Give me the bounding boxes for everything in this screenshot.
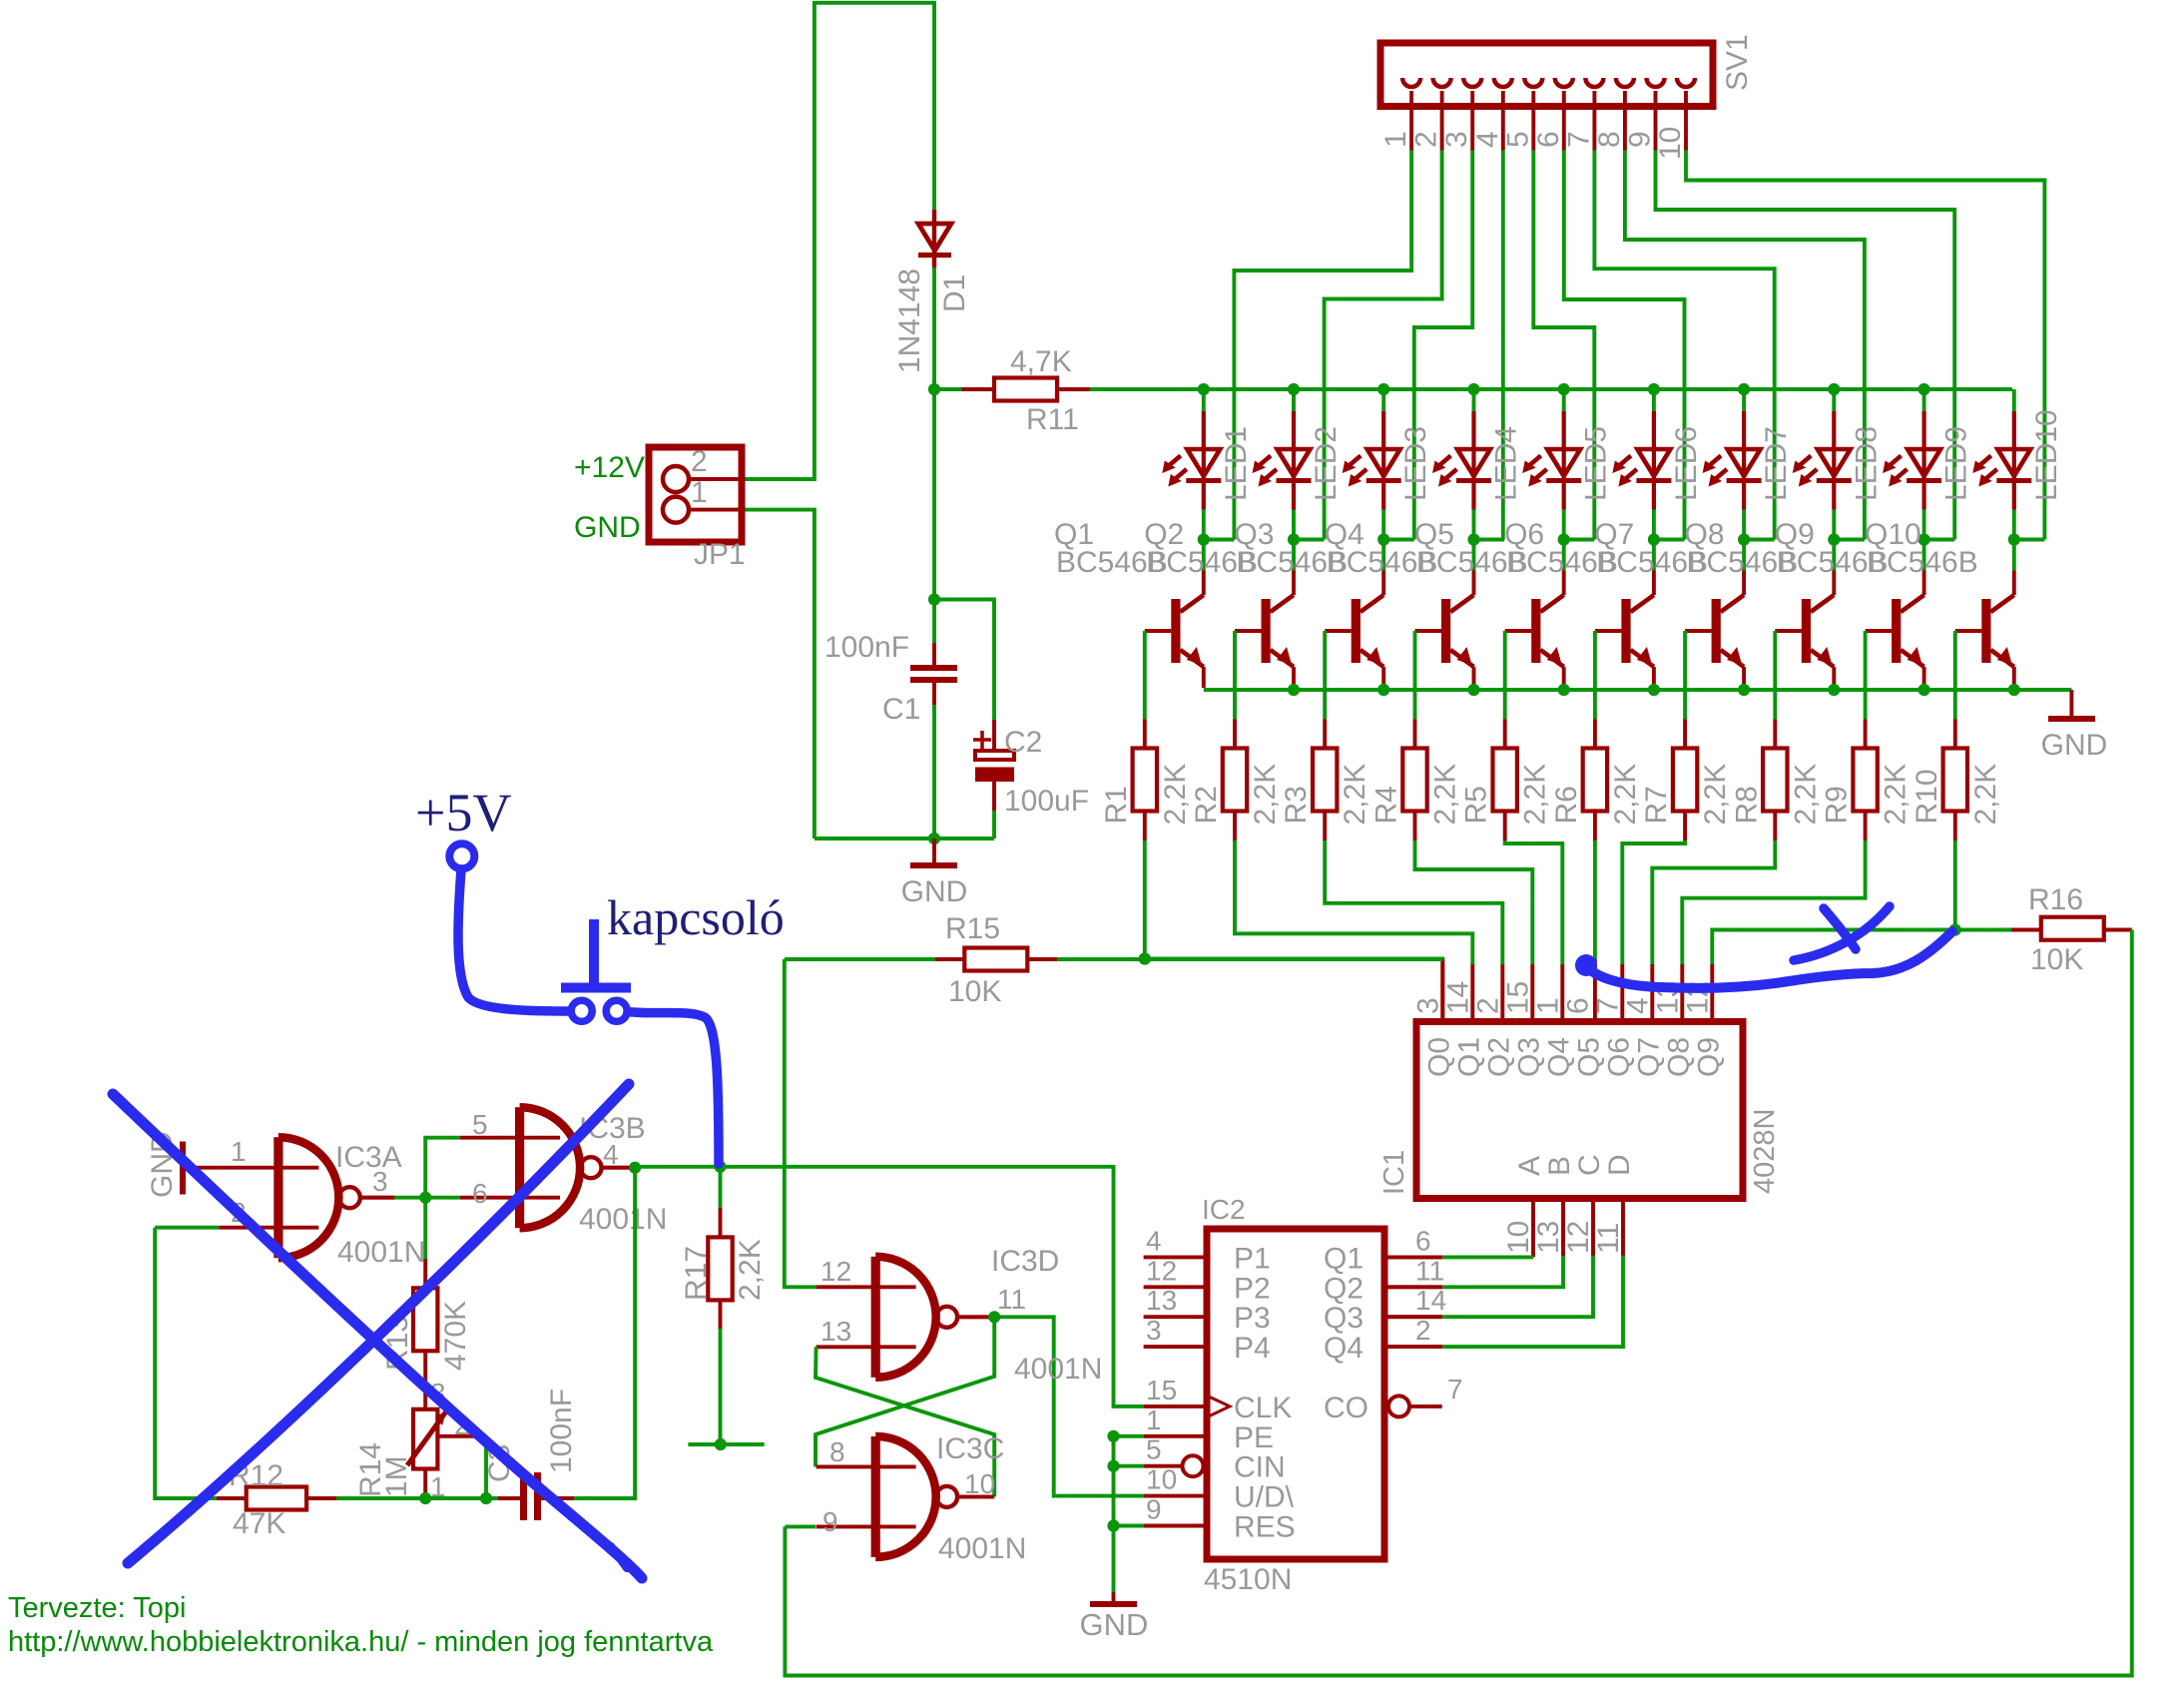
blue cross stroke 2 over oscillator [128, 1084, 629, 1563]
wire cathode LED8 [1832, 510, 1836, 540]
wire base Q5 [1505, 629, 1532, 633]
wire IC3C input 9 from feedback [785, 1524, 816, 1528]
connector JP1 [649, 447, 742, 542]
junction R14 wiper bottom [480, 1492, 492, 1504]
pin 7 of SV1 [1585, 78, 1603, 87]
wire IC3C output [957, 1494, 994, 1498]
svg-text:Q4: Q4 [1324, 1332, 1364, 1365]
resistor R1 2,2K [1143, 720, 1147, 749]
wire emitter rail [1204, 688, 2072, 692]
LED LED8 [1832, 389, 1836, 411]
resistor R10 2,2K [1953, 720, 1957, 749]
junction emitter Q8 [1828, 684, 1840, 696]
svg-text:kapcsoló: kapcsoló [607, 889, 785, 945]
svg-text:LED6: LED6 [1670, 426, 1703, 501]
svg-text:R9: R9 [1821, 786, 1854, 824]
IC2 pin 6 Q1 [1387, 1255, 1442, 1259]
svg-text:12: 12 [1146, 1255, 1177, 1286]
svg-text:IC3A: IC3A [335, 1141, 402, 1174]
wire base Q8 [1775, 629, 1802, 633]
transistor Q5 BC546B [1540, 595, 1563, 612]
switch lever [589, 919, 599, 984]
wire cathode LED10 [2012, 510, 2016, 540]
resistor R15 10K [785, 957, 935, 961]
svg-text:CLK: CLK [1234, 1392, 1292, 1424]
svg-text:2: 2 [1471, 997, 1504, 1014]
capacitor C3 100nF [498, 1496, 520, 1500]
wire R1 to IC1 pin [1145, 841, 1443, 964]
LED8 emission arrows [1798, 456, 1811, 467]
svg-text:Q9: Q9 [1692, 1037, 1725, 1077]
wire R8 to IC1 pin [1652, 841, 1775, 964]
junction anode LED4 [1467, 383, 1479, 395]
gate IC3D 4001N [871, 1257, 880, 1378]
transistor Q9 BC546B [1901, 595, 1923, 612]
svg-text:8: 8 [829, 1436, 845, 1467]
wire R12 to C3 [425, 1496, 498, 1500]
svg-text:PE: PE [1234, 1421, 1274, 1454]
transistor Q3 BC546B [1361, 595, 1383, 612]
junction emitter Q4 [1467, 684, 1479, 696]
IC IC2 4510N box [1207, 1229, 1384, 1559]
resistor R11 4,7K [934, 387, 961, 391]
svg-text:100uF: 100uF [1004, 785, 1089, 818]
wire collector Q3 [1381, 540, 1385, 571]
svg-text:Q3: Q3 [1512, 1037, 1545, 1077]
+5V terminal circle [449, 843, 474, 868]
LED LED2 [1292, 389, 1296, 411]
junction R1/R15 [1139, 952, 1151, 964]
wire base Q6 [1595, 629, 1622, 633]
wire base Q1 [1145, 629, 1172, 633]
svg-text:Q1: Q1 [1324, 1242, 1364, 1275]
pin 1 of SV1 [1402, 78, 1420, 87]
blue wire +5V to switch [458, 869, 569, 1011]
svg-text:11: 11 [1592, 1223, 1625, 1254]
svg-text:Q8: Q8 [1662, 1037, 1695, 1077]
wire base Q4 [1415, 629, 1442, 633]
wiper of R14 [439, 1434, 486, 1438]
wire R5 to IC1 pin [1505, 841, 1563, 964]
svg-text:Q2: Q2 [1324, 1272, 1364, 1305]
resistor R6 2,2K [1593, 720, 1597, 749]
IC1 bottom pin 10 [1531, 1202, 1535, 1256]
wire CIN to GND rail [1114, 1464, 1144, 1468]
svg-text:2: 2 [1410, 131, 1443, 148]
LED3 emission arrows [1348, 456, 1361, 467]
resistor R8 2,2K [1773, 720, 1777, 749]
wire IC1 D to IC2 [1442, 1256, 1623, 1347]
wire R3 to IC1 pin [1325, 841, 1502, 964]
ground flag on IC3A input 1 [185, 1166, 220, 1170]
junction C2 branch [928, 593, 940, 605]
wire R6 to IC1 pin [1593, 841, 1597, 959]
svg-text:LED1: LED1 [1220, 426, 1253, 501]
LED LED6 [1652, 389, 1656, 411]
svg-text:LED7: LED7 [1760, 426, 1793, 501]
wire stub at R17 bottom [688, 1442, 764, 1446]
svg-text:1: 1 [1146, 1404, 1162, 1435]
svg-text:http://www.hobbielektronika.hu: http://www.hobbielektronika.hu/ - minden… [8, 1626, 714, 1658]
svg-text:6: 6 [1415, 1225, 1431, 1256]
svg-text:14: 14 [1441, 981, 1474, 1014]
wire collector Q5 [1562, 540, 1566, 571]
svg-text:R5: R5 [1460, 786, 1493, 824]
svg-text:2,2K: 2,2K [1339, 764, 1371, 826]
svg-text:6: 6 [472, 1178, 488, 1209]
ground symbol under C1 [932, 839, 936, 862]
svg-text:1M: 1M [380, 1455, 413, 1497]
IC1 bottom pin 13 [1561, 1202, 1565, 1256]
switch kapcsolo contacts [571, 1000, 592, 1021]
resistor R17 2,2K [714, 1161, 726, 1173]
svg-text:Q7: Q7 [1632, 1037, 1665, 1077]
wire R7 to IC1 pin [1622, 841, 1685, 964]
wire IC3D output to IC3C input 8 [816, 1317, 994, 1466]
junction anode LED7 [1738, 383, 1750, 395]
svg-text:P1: P1 [1234, 1242, 1271, 1275]
pin 10 of SV1 [1677, 78, 1695, 87]
IC IC1 4028N box [1416, 1022, 1743, 1199]
svg-text:IC3D: IC3D [991, 1245, 1059, 1278]
junction emitter Q10 [2008, 684, 2020, 696]
IC2 pin 9 RES [1144, 1524, 1207, 1528]
svg-text:IC1: IC1 [1378, 1150, 1410, 1195]
svg-text:4: 4 [1146, 1225, 1162, 1256]
LED LED10 [2012, 389, 2016, 411]
svg-text:4510N: 4510N [1204, 1563, 1292, 1596]
wire cathode LED3 [1381, 510, 1385, 540]
wire R9 to IC1 pin [1682, 841, 1865, 964]
svg-text:CO: CO [1324, 1392, 1368, 1424]
wire emitter Q3 [1381, 667, 1385, 688]
svg-text:IC3C: IC3C [936, 1432, 1004, 1465]
svg-text:1N4148: 1N4148 [893, 269, 926, 373]
svg-text:R11: R11 [1026, 403, 1079, 436]
svg-text:2,2K: 2,2K [1789, 764, 1822, 826]
svg-text:GND: GND [901, 875, 968, 908]
junction anode LED9 [1918, 383, 1930, 395]
LED LED7 [1742, 389, 1746, 411]
LED7 emission arrows [1708, 456, 1721, 467]
gate IC3C 4001N [871, 1436, 880, 1557]
svg-text:R15: R15 [945, 912, 1000, 945]
svg-text:C: C [1573, 1154, 1606, 1176]
capacitor C1 100nF [932, 389, 936, 643]
svg-text:1: 1 [1379, 131, 1412, 148]
pin 2 of SV1 [1433, 78, 1451, 87]
wire SV1 pin 7 to LED7 cathode [1594, 151, 1774, 540]
svg-text:IC2: IC2 [1202, 1194, 1246, 1225]
svg-text:3: 3 [1411, 997, 1444, 1014]
wire RES to GND rail [1114, 1524, 1144, 1528]
wire cathode LED5 [1562, 510, 1566, 540]
wire SV1 pin 6 to LED6 cathode [1564, 151, 1685, 540]
IC2 pin 2 Q4 [1387, 1345, 1442, 1349]
wire R4 to IC1 pin [1415, 841, 1533, 964]
pin 6 of SV1 [1555, 78, 1573, 87]
junction emitter Q3 [1377, 684, 1389, 696]
junction emitter Q5 [1558, 684, 1570, 696]
IC2 pin 14 Q3 [1387, 1315, 1442, 1319]
svg-text:47K: 47K [233, 1507, 285, 1540]
wire collector Q1 [1202, 540, 1206, 571]
svg-text:R3: R3 [1280, 786, 1313, 824]
IC2 pin 3 P4 [1144, 1345, 1207, 1349]
svg-text:A: A [1513, 1156, 1546, 1176]
svg-text:100nF: 100nF [824, 631, 909, 664]
svg-text:R16: R16 [2028, 883, 2083, 916]
svg-text:C1: C1 [882, 693, 920, 726]
transistor Q6 BC546B [1631, 595, 1654, 612]
wire collector Q2 [1292, 540, 1296, 571]
svg-text:R10: R10 [1911, 769, 1943, 824]
svg-text:7: 7 [1562, 131, 1595, 148]
wire emitter Q7 [1742, 667, 1746, 688]
svg-text:+12V: +12V [574, 451, 645, 484]
svg-text:4001N: 4001N [579, 1203, 667, 1236]
wire R16 to bottom feedback [785, 930, 2131, 1676]
svg-text:15: 15 [1146, 1375, 1177, 1405]
resistor R5 2,2K [1503, 720, 1507, 749]
svg-text:Q4: Q4 [1542, 1037, 1575, 1077]
wire base Q2 [1235, 629, 1262, 633]
svg-text:12: 12 [1562, 1221, 1595, 1254]
wire IC3D input 13 to IC3C output [816, 1347, 994, 1496]
svg-text:9: 9 [1624, 131, 1657, 148]
wire GND bottom rail under C1/C2 [815, 837, 994, 841]
svg-text:10: 10 [1502, 1221, 1535, 1254]
wire SV1 pin 3 to LED3 cathode [1414, 151, 1472, 540]
wire cathode LED6 [1652, 510, 1656, 540]
capacitor C2 100uF electrolytic [934, 600, 994, 721]
junction anode LED2 [1288, 383, 1300, 395]
svg-text:470K: 470K [439, 1301, 472, 1371]
wire cathode LED4 [1472, 510, 1476, 540]
svg-text:14: 14 [1415, 1285, 1446, 1316]
svg-text:10: 10 [1146, 1464, 1177, 1495]
wire base Q10 [1955, 629, 1982, 633]
svg-text:13: 13 [1146, 1285, 1177, 1316]
svg-text:4,7K: 4,7K [1010, 345, 1072, 378]
svg-text:1: 1 [1531, 997, 1564, 1014]
wire collector Q8 [1832, 540, 1836, 571]
svg-text:P3: P3 [1234, 1302, 1271, 1335]
pin 5 of SV1 [1524, 78, 1542, 87]
ground symbol under IC2 [1112, 1592, 1116, 1602]
LED LED9 [1922, 389, 1926, 411]
wire R2 to IC1 pin [1235, 841, 1472, 964]
LED LED4 [1472, 389, 1476, 411]
svg-text:11: 11 [997, 1284, 1026, 1315]
resistor R9 2,2K [1864, 720, 1868, 749]
junction emitter Q2 [1288, 684, 1300, 696]
svg-text:LED3: LED3 [1399, 426, 1432, 501]
svg-text:RES: RES [1234, 1511, 1296, 1544]
wire SV1 pin 9 to LED9 cathode [1656, 151, 1955, 540]
svg-text:R1: R1 [1100, 786, 1133, 824]
svg-text:2: 2 [1415, 1315, 1431, 1346]
diode D1 1N4148 [932, 210, 936, 268]
blue curve wire to R16 node [1575, 954, 1597, 976]
junction R14 bottom [419, 1492, 431, 1504]
IC2 pin 12 P2 [1144, 1285, 1207, 1289]
wire SV1 pin 2 to LED2 cathode [1325, 151, 1442, 540]
IC1 bottom pin 12 [1591, 1202, 1595, 1256]
wire GND from JP1 pin1 down [742, 510, 815, 839]
wire GND vertical at IC2 [1112, 1436, 1116, 1592]
blue cross stroke 1 over oscillator [113, 1094, 642, 1578]
svg-text:LED8: LED8 [1850, 426, 1883, 501]
svg-text:R6: R6 [1550, 786, 1583, 824]
transistor Q7 BC546B [1721, 595, 1744, 612]
pin 9 of SV1 [1647, 78, 1665, 87]
ground symbol right of emitter rail [2069, 690, 2073, 716]
IC2 pin 7 CO [1388, 1396, 1409, 1416]
svg-text:R8: R8 [1730, 786, 1763, 824]
IC2 pin 5 CIN [1144, 1464, 1182, 1468]
svg-text:10K: 10K [948, 975, 1001, 1008]
svg-text:LED10: LED10 [2030, 409, 2063, 501]
wire PE to GND rail [1114, 1434, 1144, 1438]
wire R15 to IC1 pin 3 [1057, 957, 1442, 961]
svg-text:R4: R4 [1370, 786, 1403, 824]
svg-text:4001N: 4001N [337, 1236, 425, 1269]
IC2 pin 13 P3 [1144, 1315, 1207, 1319]
svg-text:2,2K: 2,2K [1699, 764, 1732, 826]
LED10 emission arrows [1978, 456, 1991, 467]
junction D1/R11 [928, 383, 940, 395]
svg-text:100nF: 100nF [545, 1389, 578, 1473]
wire emitter Q6 [1652, 667, 1656, 688]
svg-text:GND: GND [2041, 729, 2108, 762]
svg-text:Q2: Q2 [1482, 1037, 1515, 1077]
wire cathode LED2 [1292, 510, 1296, 540]
svg-text:P2: P2 [1234, 1272, 1271, 1305]
svg-text:LED5: LED5 [1580, 426, 1613, 501]
svg-text:+5V: +5V [415, 783, 511, 842]
wire emitter Q9 [1922, 667, 1926, 688]
junction emitter Q6 [1648, 684, 1660, 696]
svg-text:13: 13 [1532, 1221, 1565, 1254]
wire SV1 pin 1 to LED1 cathode [1234, 151, 1411, 540]
svg-text:D: D [1603, 1154, 1636, 1176]
svg-text:B: B [1543, 1156, 1576, 1176]
svg-text:Tervezte: Topi: Tervezte: Topi [8, 1592, 186, 1624]
svg-text:Q3: Q3 [1324, 1302, 1364, 1335]
svg-text:2,2K: 2,2K [1249, 764, 1282, 826]
svg-text:10: 10 [964, 1468, 995, 1499]
LED9 emission arrows [1889, 456, 1902, 467]
resistor R7 2,2K [1683, 720, 1687, 749]
wire IC3A output to IC3B inputs [360, 1196, 394, 1200]
svg-text:C2: C2 [1004, 726, 1042, 759]
junction anode LED8 [1828, 383, 1840, 395]
svg-text:4: 4 [1471, 131, 1504, 148]
LED6 emission arrows [1618, 456, 1631, 467]
wire IC3B output to C3 [574, 1167, 635, 1498]
IC2 pin 11 Q2 [1387, 1285, 1442, 1289]
LED2 emission arrows [1258, 456, 1271, 467]
LED5 emission arrows [1528, 456, 1541, 467]
svg-text:15: 15 [1501, 981, 1534, 1014]
wire cathode LED7 [1742, 510, 1746, 540]
transistor Q2 BC546B [1271, 595, 1294, 612]
resistor R16 10K [1955, 928, 2011, 932]
junction emitter Q7 [1738, 684, 1750, 696]
svg-text:2,2K: 2,2K [1609, 764, 1642, 826]
wire SV1 pin 8 to LED8 cathode [1625, 151, 1865, 540]
wire IC1 B to IC2 [1442, 1256, 1563, 1287]
resistor R13 470K [423, 1198, 427, 1259]
wire collector Q9 [1922, 540, 1926, 571]
transistor Q4 BC546B [1450, 595, 1473, 612]
svg-text:2,2K: 2,2K [1880, 764, 1912, 826]
svg-text:GND: GND [1080, 1607, 1149, 1642]
svg-text:Q0: Q0 [1422, 1037, 1455, 1077]
transistor Q1 BC546B [1180, 595, 1203, 612]
wire collector Q6 [1652, 540, 1656, 571]
svg-text:10: 10 [1654, 127, 1687, 160]
svg-text:6: 6 [1532, 131, 1565, 148]
svg-text:R2: R2 [1190, 786, 1223, 824]
wire emitter Q5 [1562, 667, 1566, 688]
trimmer R14 1M [423, 1351, 427, 1409]
wire R15 to IC3D input 12 [785, 959, 817, 1287]
svg-text:2,2K: 2,2K [734, 1239, 767, 1301]
resistor R4 2,2K [1413, 720, 1417, 749]
IC2 CLK triangle [1209, 1397, 1230, 1416]
svg-text:9: 9 [1146, 1494, 1162, 1525]
svg-text:5: 5 [1501, 131, 1534, 148]
svg-text:9: 9 [822, 1506, 838, 1537]
resistor R2 2,2K [1233, 720, 1237, 749]
svg-text:13: 13 [820, 1316, 851, 1347]
wire IC3D output junction [957, 1315, 994, 1319]
wire IC3B output node [602, 1166, 636, 1170]
wire cathode LED1 [1202, 510, 1206, 540]
wire IC3A input 2 feedback [155, 1226, 219, 1230]
svg-text:10K: 10K [2030, 943, 2083, 976]
LED LED1 [1202, 389, 1206, 411]
svg-text:D1: D1 [938, 275, 971, 312]
svg-text:LED2: LED2 [1310, 426, 1343, 501]
svg-text:11: 11 [1415, 1255, 1444, 1286]
wire SV1 pin 4 to LED4 cathode [1501, 151, 1505, 540]
wire base Q9 [1866, 629, 1893, 633]
transistor Q10 BC546B [1990, 595, 2013, 612]
pin 3 of SV1 [1463, 78, 1481, 87]
svg-text:7: 7 [1447, 1374, 1463, 1404]
LED LED3 [1381, 389, 1385, 411]
gate IC3B 4001N [515, 1107, 524, 1228]
wire collector Q4 [1472, 540, 1476, 571]
wire SV1 pin 10 to LED10 cathode [1686, 151, 2044, 540]
wire +12V anode rail [1090, 387, 2013, 391]
wire D1 cathode to R11 node [932, 268, 936, 389]
wire CLK net from IC3B output [635, 1167, 1144, 1406]
junction anode LED5 [1558, 383, 1570, 395]
svg-text:6: 6 [1561, 997, 1594, 1014]
svg-text:LED9: LED9 [1940, 426, 1973, 501]
wire emitter Q4 [1472, 667, 1476, 688]
wire emitter Q8 [1832, 667, 1836, 688]
connector SV1 [1380, 43, 1713, 107]
svg-text:2,2K: 2,2K [1519, 764, 1552, 826]
wire base Q7 [1685, 629, 1712, 633]
LED1 emission arrows [1168, 456, 1181, 467]
svg-text:R7: R7 [1640, 786, 1673, 824]
